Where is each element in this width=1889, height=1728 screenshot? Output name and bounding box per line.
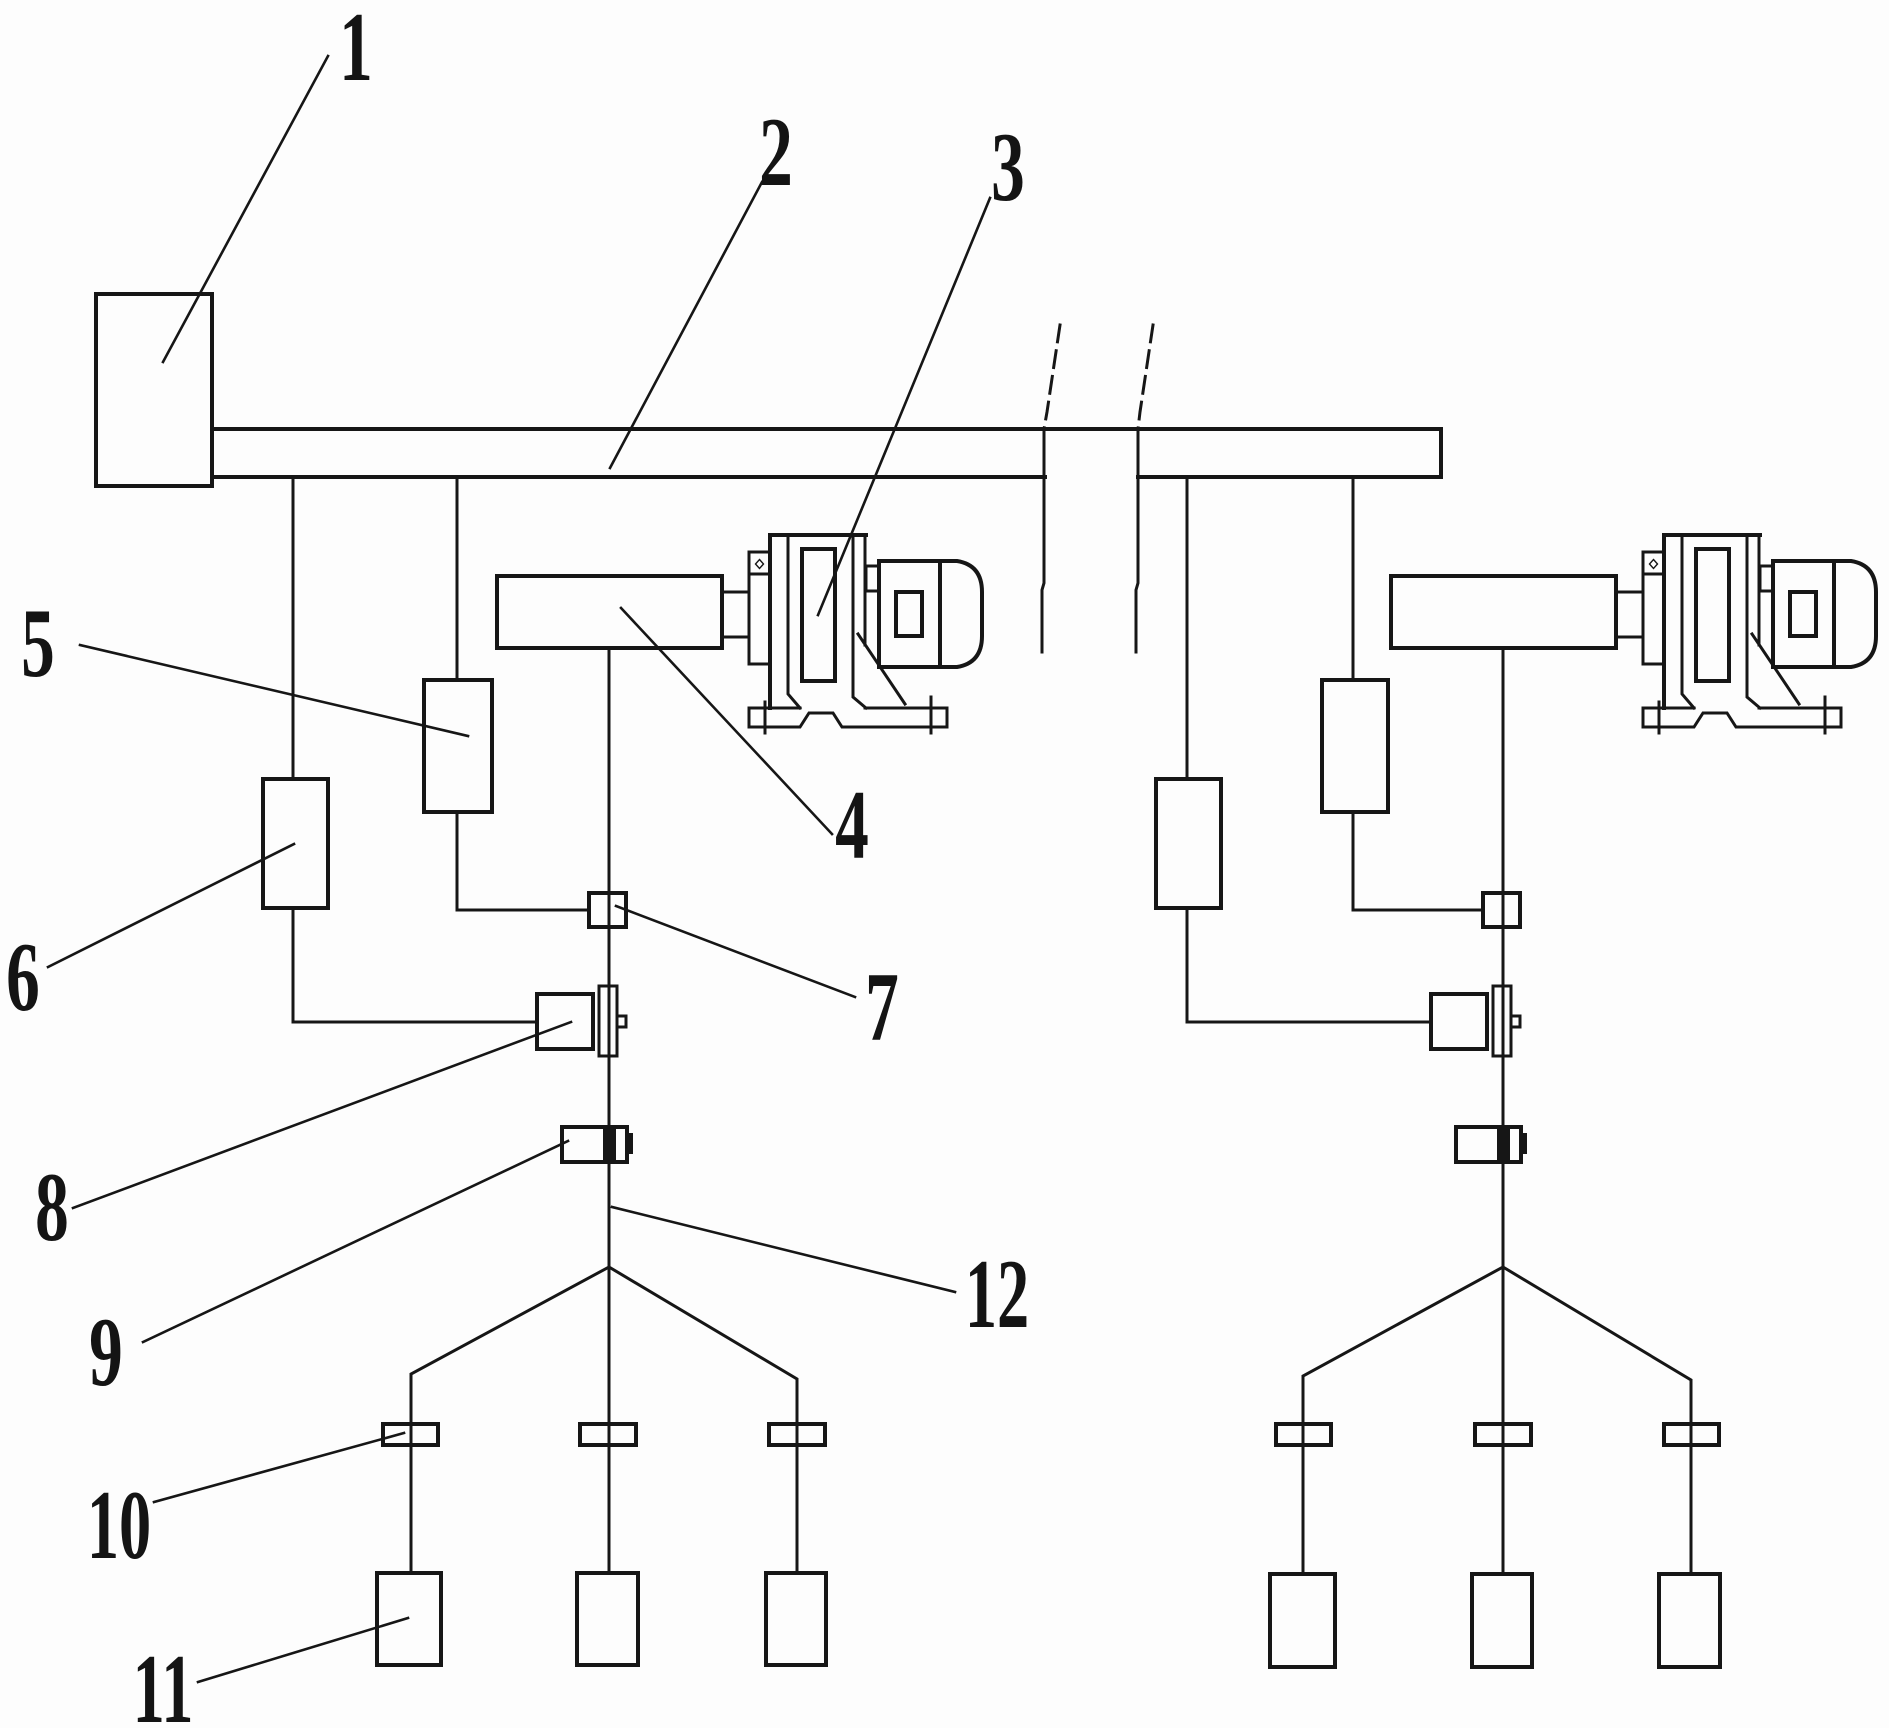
- right tension box 6: [1156, 779, 1221, 908]
- svg-text:12: 12: [965, 1240, 1029, 1349]
- leader line 8: [73, 1022, 571, 1208]
- motor 8 (left): [537, 994, 593, 1049]
- right winch drum 4: [1391, 576, 1616, 648]
- svg-text:4: 4: [835, 771, 869, 880]
- svg-text:1: 1: [339, 0, 373, 102]
- beam 2 right end cap: [1439, 429, 1443, 477]
- svg-text:8: 8: [35, 1153, 69, 1262]
- leader line 3: [818, 198, 990, 615]
- winch drum 4 (left): [497, 576, 722, 648]
- right weight a: [1270, 1574, 1335, 1667]
- clamp 10 b (left): [580, 1424, 636, 1445]
- right main rope: [1502, 648, 1505, 1573]
- leader line 7: [616, 906, 855, 997]
- svg-text:7: 7: [865, 953, 899, 1062]
- base bolt left: [764, 702, 767, 733]
- right tension box 5: [1322, 680, 1388, 812]
- leader line 11: [198, 1618, 408, 1682]
- right assembly: wire beam to box 6: [1186, 477, 1189, 779]
- right wire box 5 down: [1352, 812, 1355, 910]
- clamp 10 a (left): [383, 1424, 438, 1445]
- weight 11 b (left): [577, 1573, 638, 1665]
- right clamp b: [1475, 1424, 1531, 1445]
- leader line 6: [48, 844, 294, 967]
- branch rope right (left assembly): [609, 1267, 797, 1573]
- right branch rope left: [1303, 1267, 1503, 1573]
- wire box 6 to motor 8 (left): [293, 1021, 537, 1024]
- controller box 1: [96, 294, 212, 486]
- right weight c: [1659, 1574, 1720, 1667]
- right gear motor unit: [1616, 535, 1876, 733]
- pedestal base: [749, 708, 947, 727]
- tension box 6 (left): [263, 779, 328, 908]
- right branch rope right: [1503, 1267, 1691, 1573]
- svg-text:5: 5: [21, 589, 55, 698]
- tension box 5 (left): [424, 680, 492, 812]
- break mark right: [1136, 325, 1153, 652]
- gear motor unit 3 (left): [722, 535, 982, 733]
- right wire box 5 to sensor 7: [1353, 909, 1483, 912]
- right wire box 6 down: [1186, 908, 1189, 1022]
- svg-text:2: 2: [759, 98, 793, 207]
- svg-text:3: 3: [991, 113, 1025, 222]
- clamp 10 c (left): [769, 1424, 825, 1445]
- right coupling: [1493, 986, 1520, 1056]
- leader line 9: [143, 1141, 568, 1342]
- weight 11 a (left): [377, 1573, 441, 1665]
- motor window: [896, 592, 922, 636]
- rope guide 9 (left): [562, 1127, 633, 1162]
- wire box 6 down (left): [292, 908, 295, 1022]
- break mark left: [1042, 325, 1060, 652]
- right sensor 7: [1483, 893, 1520, 927]
- coupling flange plate: [749, 552, 770, 664]
- branch rope left (left assembly): [411, 1267, 609, 1573]
- coupling of motor 8 (left): [599, 986, 626, 1056]
- leader line 1: [163, 56, 328, 362]
- bearing pedestal: [770, 533, 866, 537]
- right wire box 6 to motor 8: [1187, 1021, 1431, 1024]
- right rope guide 9: [1456, 1127, 1527, 1162]
- right motor 8: [1431, 994, 1487, 1049]
- sensor 7 (left): [589, 893, 626, 927]
- wire box 5 to sensor 7 (left): [457, 909, 589, 912]
- leader line 12: [612, 1207, 955, 1292]
- svg-text:11: 11: [133, 1635, 194, 1728]
- wire beam to box 5 (left): [456, 477, 459, 680]
- svg-text:6: 6: [6, 923, 40, 1032]
- right assembly: wire beam to box 5: [1352, 477, 1355, 680]
- beam 2 bottom chord right segment: [1138, 475, 1441, 479]
- wire beam to box 6 (left): [292, 477, 295, 779]
- right clamp a: [1276, 1424, 1331, 1445]
- leader line 2: [610, 182, 762, 468]
- beam 2 bottom chord left segment: [212, 475, 1045, 479]
- main rope 12 (left): [608, 648, 611, 1573]
- leader line 10: [154, 1433, 404, 1502]
- motor support strut: [858, 634, 905, 704]
- wire box 5 down (left): [456, 812, 459, 910]
- weight 11 c (left): [766, 1573, 826, 1665]
- motor mount link: [866, 566, 879, 591]
- drum shaft: [722, 592, 749, 637]
- leader line 4: [621, 608, 832, 834]
- motor body: [879, 561, 940, 667]
- right weight b: [1472, 1574, 1532, 1667]
- base bolt right: [930, 697, 933, 733]
- right clamp c: [1664, 1424, 1719, 1445]
- leader line 5: [80, 645, 468, 736]
- beam 2 top chord: [212, 427, 1441, 431]
- svg-text:9: 9: [89, 1298, 123, 1407]
- svg-text:10: 10: [87, 1471, 151, 1580]
